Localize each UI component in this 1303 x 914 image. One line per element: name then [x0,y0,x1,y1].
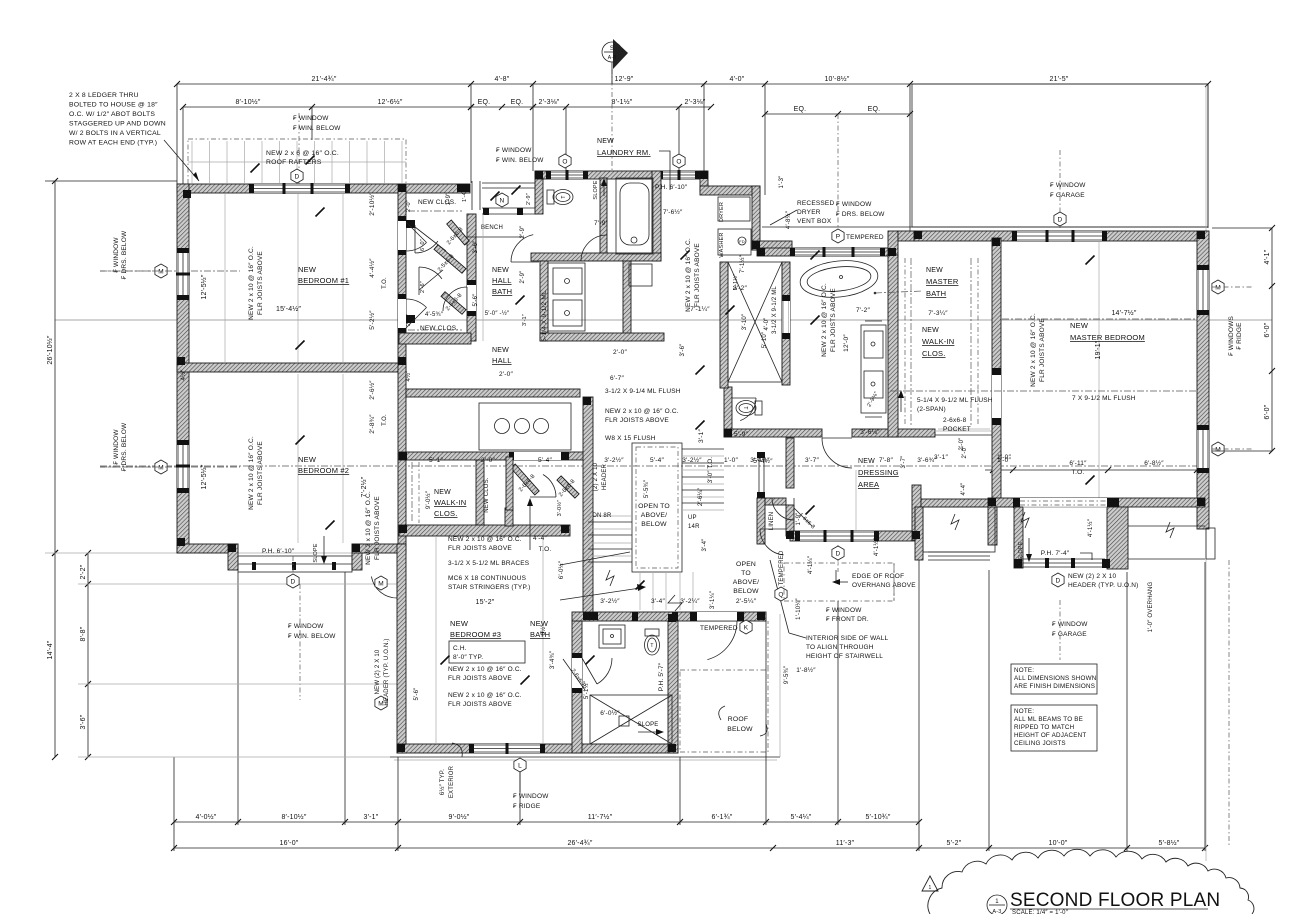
svg-text:EXTERIOR: EXTERIOR [449,765,455,798]
svg-text:7′-2″: 7′-2″ [856,307,870,314]
svg-text:4½″: 4½″ [180,369,187,381]
svg-text:9′-5¾″: 9′-5¾″ [784,665,790,684]
svg-text:21′-5″: 21′-5″ [1049,76,1068,83]
svg-text:₣ WINDOW: ₣ WINDOW [836,201,872,208]
svg-text:2′-5¼″: 2′-5¼″ [736,598,757,605]
svg-text:12′-0″: 12′-0″ [843,334,850,352]
svg-text:1′-0″: 1′-0″ [997,454,1011,461]
svg-text:4′-0½″: 4′-0½″ [196,813,217,821]
svg-text:HEIGHT OF STAIRWELL: HEIGHT OF STAIRWELL [806,653,883,660]
svg-text:₣ GARAGE: ₣ GARAGE [1052,631,1087,638]
svg-text:O: O [676,158,681,165]
svg-text:T: T [650,643,653,649]
svg-text:3′-1″: 3′-1″ [364,814,379,821]
svg-text:ALL DIMENSIONS SHOWN: ALL DIMENSIONS SHOWN [1014,675,1097,682]
svg-text:4′-4″: 4′-4″ [533,535,547,542]
svg-text:FLR JOISTS ABOVE: FLR JOISTS ABOVE [694,243,701,307]
svg-text:RIPPED TO MATCH: RIPPED TO MATCH [1014,724,1075,731]
svg-text:MASTER: MASTER [926,277,959,286]
svg-text:3′-1″: 3′-1″ [522,314,528,326]
svg-text:NEW (2) 2 X 10: NEW (2) 2 X 10 [375,649,381,694]
svg-text:FLR JOISTS ABOVE: FLR JOISTS ABOVE [374,496,381,560]
svg-text:1′-9″: 1′-9″ [446,192,452,206]
svg-text:ROW AT EACH END (TYP.): ROW AT EACH END (TYP.) [69,140,157,147]
svg-text:7′-3¼″: 7′-3¼″ [928,310,948,317]
svg-text:₣ RIDGE: ₣ RIDGE [1236,322,1243,350]
svg-text:NEW: NEW [922,327,939,334]
svg-text:4′-0″: 4′-0″ [764,317,770,331]
svg-text:14′-7½″: 14′-7½″ [1111,309,1136,317]
svg-text:HALL: HALL [492,276,512,285]
svg-text:NEW: NEW [298,265,317,274]
svg-text:MC6 X 18 CONTINUOUS: MC6 X 18 CONTINUOUS [448,575,527,582]
svg-text:₣ WINDOW: ₣ WINDOW [1050,182,1086,189]
svg-text:5′-2″: 5′-2″ [947,840,962,847]
svg-text:₣ WINDOW: ₣ WINDOW [113,237,120,273]
svg-text:BELOW: BELOW [641,521,667,528]
svg-text:2-6x6-8: 2-6x6-8 [943,417,967,424]
svg-text:1: 1 [929,885,932,891]
svg-text:2′-3⅛″: 2′-3⅛″ [539,99,560,106]
svg-text:4′-4½″: 4′-4½″ [368,258,376,278]
svg-text:NEW CLOS.: NEW CLOS. [420,325,458,332]
svg-text:7′-8″: 7′-8″ [879,457,893,464]
svg-text:P.H. 6′-10″: P.H. 6′-10″ [262,548,295,555]
svg-text:SECOND FLOOR PLAN: SECOND FLOOR PLAN [1010,890,1220,911]
svg-text:M: M [1215,446,1221,453]
svg-text:BENCH: BENCH [481,225,503,231]
svg-text:HALL: HALL [492,356,512,365]
svg-text:FLR JOISTS ABOVE: FLR JOISTS ABOVE [257,251,264,315]
svg-text:P: P [836,233,841,240]
svg-text:11′-3″: 11′-3″ [836,840,855,847]
svg-text:26′-10½″: 26′-10½″ [46,335,54,364]
svg-text:CLOS.: CLOS. [434,509,458,518]
svg-text:3′-6″: 3′-6″ [680,343,686,357]
svg-text:NEW CLOS.: NEW CLOS. [484,477,490,513]
svg-text:5′-4¼″: 5′-4¼″ [791,814,812,821]
svg-text:2′-9″: 2′-9″ [520,270,526,284]
svg-text:FLR JOISTS ABOVE: FLR JOISTS ABOVE [257,441,264,505]
svg-text:6½″ TYP.: 6½″ TYP. [439,769,446,795]
svg-text:4′-1½″: 4′-1½″ [1087,518,1094,537]
svg-text:2′-9″: 2′-9″ [526,193,532,205]
svg-text:N: N [500,197,505,204]
svg-text:T: T [742,406,748,409]
svg-text:T.O.: T.O. [382,277,388,289]
svg-text:T.O.: T.O. [382,414,388,426]
svg-text:FD: FD [739,239,745,244]
svg-text:₣ WIN. BELOW: ₣ WIN. BELOW [293,125,341,132]
svg-text:3′-4″: 3′-4″ [702,538,708,552]
svg-text:NEW 2 x 10 @ 16″ O.C.: NEW 2 x 10 @ 16″ O.C. [248,436,255,510]
svg-text:FLR JOISTS ABOVE: FLR JOISTS ABOVE [605,417,669,424]
svg-text:SLOPE: SLOPE [637,722,658,728]
svg-text:L: L [518,762,522,769]
svg-text:5′-2½″: 5′-2½″ [368,310,376,330]
svg-text:5′-4″: 5′-4″ [650,457,664,464]
svg-text:BELOW: BELOW [727,726,753,733]
svg-text:3′-4″: 3′-4″ [651,598,665,605]
svg-text:SLOPE: SLOPE [313,543,319,562]
svg-text:AREA: AREA [858,480,879,489]
svg-text:₣ WIN. BELOW: ₣ WIN. BELOW [288,633,336,640]
svg-text:EQ.: EQ. [478,99,491,106]
svg-text:NEW 2 x 10 @ 16″ O.C.: NEW 2 x 10 @ 16″ O.C. [605,408,679,415]
svg-text:OPEN TO: OPEN TO [638,503,670,510]
svg-text:9′-0½″: 9′-0½″ [425,490,432,509]
svg-text:MASTER BEDROOM: MASTER BEDROOM [1070,333,1145,342]
svg-text:6′-0½″: 6′-0½″ [600,709,620,717]
svg-text:2′-6½″: 2′-6½″ [368,380,376,400]
svg-text:6′-7″: 6′-7″ [610,375,624,382]
svg-text:NEW: NEW [858,458,875,465]
svg-text:NEW: NEW [1070,321,1089,330]
svg-text:W8 X 15 FLUSH: W8 X 15 FLUSH [605,435,656,442]
svg-text:NEW: NEW [597,138,614,145]
svg-text:1′-0″ OVERHANG: 1′-0″ OVERHANG [1148,582,1154,633]
svg-text:RECESSED: RECESSED [797,200,834,207]
svg-text:4′-5¾″: 4′-5¾″ [425,312,444,318]
svg-text:6′-0″: 6′-0″ [1264,322,1271,337]
svg-text:HEADER: HEADER [602,463,608,490]
svg-text:₣ DRS. BELOW: ₣ DRS. BELOW [836,211,885,218]
svg-text:(2) 2 X 10: (2) 2 X 10 [593,462,599,491]
svg-text:7′-1½″: 7′-1½″ [739,254,746,273]
svg-text:6′-8½″: 6′-8½″ [1144,459,1164,467]
svg-text:DRYER: DRYER [797,209,821,216]
svg-text:3-1/2 X 5-1/2 ML BRACES: 3-1/2 X 5-1/2 ML BRACES [448,560,530,567]
svg-text:5′-4″: 5′-4″ [538,457,552,464]
svg-text:SLOPE: SLOPE [1018,541,1024,560]
svg-text:INTERIOR SIDE OF WALL: INTERIOR SIDE OF WALL [806,635,889,642]
svg-text:3′-2½″: 3′-2½″ [604,456,624,464]
svg-text:5-1/4 X 9-1/2 ML FLUSH: 5-1/4 X 9-1/2 ML FLUSH [917,397,993,404]
svg-text:D: D [295,173,300,180]
svg-text:8′-8″: 8′-8″ [80,626,87,641]
svg-text:14R: 14R [688,524,700,530]
svg-text:LAUNDRY RM.: LAUNDRY RM. [597,148,651,157]
svg-text:5′-6″: 5′-6″ [473,293,479,307]
svg-text:BATH: BATH [926,289,946,298]
svg-text:5′-8½″: 5′-8½″ [1159,839,1180,847]
svg-text:4′-8½″: 4′-8½″ [785,210,792,229]
svg-text:2′-10½″: 2′-10½″ [368,192,376,216]
svg-text:DRESSING: DRESSING [858,468,899,477]
svg-text:3′-6⅛″: 3′-6⅛″ [860,429,880,436]
svg-text:TEMPERED: TEMPERED [700,625,738,632]
svg-text:₣ WINDOW: ₣ WINDOW [293,115,329,122]
svg-text:POCKET: POCKET [943,426,971,433]
svg-text:EQ.: EQ. [868,106,881,113]
svg-text:SCALE: 1/4″ = 1′-0″: SCALE: 1/4″ = 1′-0″ [1012,910,1069,914]
svg-text:EQ.: EQ. [794,106,807,113]
svg-text:2′-0″: 2′-0″ [481,457,495,464]
svg-text:₣ WINDOW: ₣ WINDOW [513,793,549,800]
svg-text:₣ WINDOW: ₣ WINDOW [496,147,532,154]
svg-text:HEADER (TYP. U.O.N.): HEADER (TYP. U.O.N.) [384,638,390,705]
svg-text:NEW 2 x 10 @ 16″ O.C.: NEW 2 x 10 @ 16″ O.C. [248,246,255,320]
svg-text:NEW: NEW [434,489,451,496]
svg-text:DN 8R: DN 8R [592,513,611,519]
svg-text:D: D [1058,216,1063,223]
svg-text:15′-4½″: 15′-4½″ [276,305,301,313]
svg-text:8′-10½″: 8′-10½″ [281,813,306,821]
svg-text:OVERHANG ABOVE: OVERHANG ABOVE [852,582,916,589]
svg-text:NEW: NEW [298,455,317,464]
svg-text:VENT BOX: VENT BOX [797,218,832,225]
svg-text:₣ WINDOW: ₣ WINDOW [1052,621,1088,628]
svg-text:₣ WINDOW: ₣ WINDOW [826,607,862,614]
svg-text:WALK-IN: WALK-IN [922,337,954,346]
svg-text:2′-0″: 2′-0″ [959,437,965,451]
svg-text:14′-4″: 14′-4″ [47,640,54,659]
svg-text:NEW: NEW [492,347,509,354]
svg-text:D: D [1056,577,1061,584]
svg-text:2′-6¼″: 2′-6¼″ [698,487,704,506]
svg-text:5′-10″: 5′-10″ [762,331,768,348]
svg-text:A-3: A-3 [992,909,1001,914]
svg-text:EQ.: EQ. [511,99,524,106]
svg-text:EDGE OF ROOF: EDGE OF ROOF [852,573,904,580]
svg-text:SLOPE: SLOPE [593,180,599,199]
svg-text:₣ RIDGE: ₣ RIDGE [513,803,541,810]
svg-text:5-1/4 X 9-1/2 ML: 5-1/4 X 9-1/2 ML [541,290,548,342]
svg-text:M: M [158,268,164,275]
svg-text:T.O.: T.O. [539,546,552,553]
svg-text:2′-0″: 2′-0″ [406,314,412,326]
svg-text:FLR JOISTS ABOVE: FLR JOISTS ABOVE [448,675,512,682]
svg-text:2′-0″: 2′-0″ [499,371,513,378]
svg-text:3′-7″: 3′-7″ [805,457,819,464]
svg-text:ABOVE/: ABOVE/ [641,512,668,519]
svg-text:12′-6½″: 12′-6½″ [377,98,402,106]
svg-text:FLR JOISTS ABOVE: FLR JOISTS ABOVE [448,701,512,708]
svg-text:₣ GARAGE: ₣ GARAGE [1050,192,1085,199]
svg-text:7′-1¼″: 7′-1¼″ [690,306,710,313]
svg-text:C.H.: C.H. [453,645,467,652]
svg-text:P.H. 7′-4″: P.H. 7′-4″ [1041,550,1070,557]
svg-text:3′-1″: 3′-1″ [934,454,948,461]
svg-text:8′-1½″: 8′-1½″ [612,98,633,106]
svg-text:12′-9″: 12′-9″ [614,76,633,83]
svg-text:5′-6″: 5′-6″ [414,687,420,701]
svg-text:5′-10¾″: 5′-10¾″ [865,814,890,821]
svg-text:8′-0″ TYP.: 8′-0″ TYP. [453,654,483,661]
svg-text:16′-0″: 16′-0″ [279,840,298,847]
svg-text:12′-5½″: 12′-5½″ [200,464,208,489]
svg-text:NEW 2 x 10 @ 16″ O.C.: NEW 2 x 10 @ 16″ O.C. [365,491,372,565]
svg-text:BELOW: BELOW [733,588,759,595]
svg-text:BATH: BATH [492,287,512,296]
svg-text:WASHER: WASHER [719,232,725,257]
svg-text:NEW (2) 2 X 10: NEW (2) 2 X 10 [1068,573,1116,580]
svg-text:1′-3″: 1′-3″ [779,175,785,189]
svg-text:(2-SPAN): (2-SPAN) [917,406,946,413]
svg-text:8′-10½″: 8′-10½″ [235,98,260,106]
svg-text:9′-0½″: 9′-0½″ [449,813,470,821]
svg-text:6½″: 6½″ [540,624,547,636]
svg-text:3′-2″: 3′-2″ [733,285,747,292]
svg-text:7 X 9-1/2 ML FLUSH: 7 X 9-1/2 ML FLUSH [1072,395,1136,402]
svg-text:M: M [378,700,384,707]
svg-text:4½″: 4½″ [405,370,412,382]
svg-text:OPEN: OPEN [736,561,756,568]
svg-text:M: M [1215,284,1221,291]
svg-text:NEW: NEW [450,619,469,628]
svg-text:26′-4¾″: 26′-4¾″ [567,840,592,847]
svg-text:7′-9″: 7′-9″ [594,220,608,227]
svg-text:2′-0″: 2′-0″ [613,349,627,356]
svg-text:2′-3⅛″: 2′-3⅛″ [685,99,706,106]
svg-text:7′-2½″: 7′-2½″ [360,476,368,497]
svg-text:O: O [562,158,567,165]
svg-text:W/ 2 BOLTS IN A VERTICAL: W/ 2 BOLTS IN A VERTICAL [69,130,161,137]
svg-text:4′-0″: 4′-0″ [730,76,745,83]
svg-text:CEILING JOISTS: CEILING JOISTS [1014,740,1066,747]
svg-text:NEW 2 x 10 @ 16″ O.C.: NEW 2 x 10 @ 16″ O.C. [1030,313,1037,387]
svg-text:NEW 2 x 10 @ 16″ O.C.: NEW 2 x 10 @ 16″ O.C. [821,283,828,357]
svg-text:12′-5½″: 12′-5½″ [200,274,208,299]
svg-text:5′-1½″: 5′-1½″ [583,680,590,699]
svg-text:7′-6½″: 7′-6½″ [663,208,683,216]
svg-text:NEW 2 x 10 @ 16″ O.C.: NEW 2 x 10 @ 16″ O.C. [448,692,522,699]
svg-text:4′-4″: 4′-4″ [961,482,967,496]
svg-text:CLOS.: CLOS. [922,349,946,358]
svg-text:ALL ML BEAMS TO BE: ALL ML BEAMS TO BE [1014,716,1083,723]
svg-text:3′-2¼″: 3′-2¼″ [680,598,700,605]
svg-text:3-1/2 X 9-1/2 ML: 3-1/2 X 9-1/2 ML [772,286,778,334]
svg-text:DRYER: DRYER [719,202,725,222]
svg-text:NEW 2 x 10 @ 16″ O.C.: NEW 2 x 10 @ 16″ O.C. [448,536,522,543]
svg-text:TEMPERED: TEMPERED [846,234,884,241]
svg-text:M: M [158,464,164,471]
svg-text:6′-0½″: 6′-0½″ [558,560,565,579]
svg-text:4′-1″: 4′-1″ [1264,249,1271,264]
svg-text:BEDROOM #3: BEDROOM #3 [450,630,501,639]
svg-text:HEIGHT OF ADJACENT: HEIGHT OF ADJACENT [1014,732,1086,739]
svg-text:1′-8½″: 1′-8½″ [796,666,816,674]
svg-text:NEW: NEW [492,267,509,274]
svg-text:T: T [561,195,567,198]
svg-text:6′-11″: 6′-11″ [1069,460,1087,467]
svg-text:1′-0″: 1′-0″ [724,457,738,464]
svg-text:3′-1″: 3′-1″ [698,429,705,443]
svg-text:₣ WINDOWS: ₣ WINDOWS [1228,315,1235,356]
svg-text:M: M [378,580,384,587]
svg-text:3-1/2 X 9-1/4 ML FLUSH: 3-1/2 X 9-1/4 ML FLUSH [605,388,681,395]
svg-text:1: 1 [995,899,999,905]
svg-text:2′-6″: 2′-6″ [420,281,426,293]
svg-text:₣ WINDOW: ₣ WINDOW [113,429,120,465]
svg-text:NOTE:: NOTE: [1014,708,1034,715]
svg-text:T.O.: T.O. [1072,469,1085,476]
svg-text:ARE FINISH DIMENSIONS: ARE FINISH DIMENSIONS [1014,683,1095,690]
svg-text:3′-10″: 3′-10″ [742,313,748,330]
svg-text:NEW 2 x 6 @ 16″ O.C.: NEW 2 x 6 @ 16″ O.C. [266,150,339,157]
svg-text:3′-6″: 3′-6″ [80,714,87,729]
svg-text:6′-0″: 6′-0″ [1264,404,1271,419]
svg-text:BEDROOM #1: BEDROOM #1 [298,276,349,285]
svg-text:Q: Q [778,591,783,598]
svg-text:ABOVE/: ABOVE/ [733,579,760,586]
svg-text:5′-1″: 5′-1″ [429,457,443,464]
svg-text:ROOF: ROOF [728,716,748,723]
svg-text:3′-7″: 3′-7″ [901,455,907,469]
svg-text:ROOF RAFTERS: ROOF RAFTERS [266,159,322,166]
svg-text:A-8: A-8 [608,55,616,61]
svg-text:FLR JOISTS ABOVE: FLR JOISTS ABOVE [830,288,837,352]
svg-text:TO: TO [741,570,751,577]
svg-text:D: D [836,550,841,557]
svg-text:BOLTED TO HOUSE @ 18″: BOLTED TO HOUSE @ 18″ [69,102,158,109]
svg-text:5′-0″ -½″: 5′-0″ -½″ [485,310,510,317]
svg-text:15′-2″: 15′-2″ [475,599,494,606]
svg-text:STAGGERED UP AND DOWN: STAGGERED UP AND DOWN [69,121,166,128]
svg-text:S: S [610,46,614,52]
svg-text:NOTE:: NOTE: [1014,667,1034,674]
svg-text:₣ FRONT DR.: ₣ FRONT DR. [826,616,869,623]
svg-text:₣ DRS. BELOW: ₣ DRS. BELOW [121,422,128,471]
svg-text:6′-1¾″: 6′-1¾″ [712,814,733,821]
svg-text:1′-9″: 1′-9″ [796,512,802,526]
svg-text:D: D [291,578,296,585]
svg-text:O.C. W/ 1/2″ ABOT BOLTS: O.C. W/ 1/2″ ABOT BOLTS [69,111,155,118]
svg-text:19′-1″: 19′-1″ [1095,340,1102,359]
svg-text:P.H. 5′-7″: P.H. 5′-7″ [658,662,665,691]
svg-text:5′-4½″: 5′-4½″ [753,457,773,465]
svg-text:2′-9″: 2′-9″ [520,225,526,239]
svg-text:NEW 2 x 10 @ 16″ O.C.: NEW 2 x 10 @ 16″ O.C. [685,238,692,312]
svg-text:₣ DRS. BELOW: ₣ DRS. BELOW [121,230,128,279]
svg-text:FLR JOISTS ABOVE: FLR JOISTS ABOVE [1039,318,1046,382]
svg-text:11′-7½″: 11′-7½″ [588,813,613,821]
svg-text:5′-9″: 5′-9″ [734,431,748,438]
svg-text:2′-0″: 2′-0″ [406,200,412,212]
svg-text:FLR JOISTS ABOVE: FLR JOISTS ABOVE [448,545,512,552]
svg-text:3′-1¼″: 3′-1¼″ [710,590,716,609]
svg-text:STAIR STRINGERS (TYP.): STAIR STRINGERS (TYP.) [448,584,531,591]
svg-text:3′-0″ T.O.: 3′-0″ T.O. [708,457,714,484]
svg-text:3′-4¾″: 3′-4¾″ [550,650,556,669]
svg-text:3′-2½″: 3′-2½″ [682,456,702,464]
svg-text:2′-8¾″: 2′-8¾″ [369,414,376,434]
svg-text:3′-6″: 3′-6″ [473,240,479,254]
svg-text:3′-0½″: 3′-0½″ [556,500,563,517]
svg-text:K: K [744,624,749,631]
svg-text:TO ALIGN THROUGH: TO ALIGN THROUGH [806,644,874,651]
svg-text:5′-5¾″: 5′-5¾″ [644,479,650,498]
svg-text:4′-1½″: 4′-1½″ [873,537,880,556]
svg-text:3′-2½″: 3′-2½″ [600,597,620,605]
svg-text:UP: UP [688,515,697,521]
svg-text:10′-0″: 10′-0″ [1048,840,1067,847]
svg-text:2 X 8 LEDGER THRU: 2 X 8 LEDGER THRU [69,92,139,99]
svg-text:NEW: NEW [926,267,943,274]
svg-text:WALK-IN: WALK-IN [434,498,466,507]
svg-text:NEW 2 x 10 @ 16″ O.C.: NEW 2 x 10 @ 16″ O.C. [448,666,522,673]
svg-text:₣ WIN. BELOW: ₣ WIN. BELOW [496,157,544,164]
svg-text:4′-1¼″: 4′-1¼″ [808,555,814,574]
svg-text:HEADER (TYP. U.O.N): HEADER (TYP. U.O.N) [1068,582,1139,589]
svg-text:₣ WINDOW: ₣ WINDOW [288,623,324,630]
svg-text:LINEN: LINEN [769,512,775,531]
svg-text:BEDROOM #2: BEDROOM #2 [298,466,349,475]
svg-text:21′-4¾″: 21′-4¾″ [311,76,336,83]
svg-text:P.H. 6′-10″: P.H. 6′-10″ [655,184,688,191]
svg-text:4′-8″: 4′-8″ [495,76,510,83]
svg-text:2′-2″: 2′-2″ [80,564,87,579]
